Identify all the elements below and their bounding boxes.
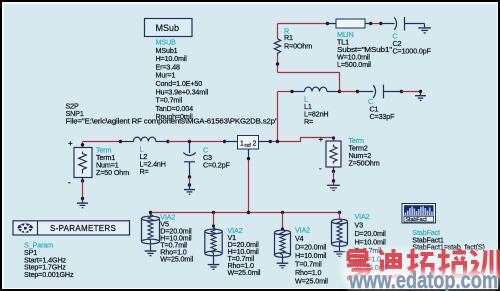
resistor R1: [274, 24, 312, 73]
port Term2: [319, 135, 380, 173]
wire: L2 to ref2 box: [168, 141, 225, 143]
svg-text:File="E:\eric\agilent RF compo: File="E:\eric\agilent RF components\MGA-…: [66, 117, 279, 126]
ground (top right, after C2): [418, 24, 431, 33]
svg-text:W=25.0mil: W=25.0mil: [295, 277, 328, 286]
wire: R1 branch to L1 node: [278, 73, 340, 92]
watermark CJK char 4 (pei): [438, 249, 466, 277]
node dot Term1 top pin: [81, 143, 84, 146]
inductor L2: [120, 137, 167, 176]
node dot L2 pin2: [166, 140, 169, 143]
node dot L1 pin2 / R1 branch junction: [338, 90, 341, 93]
svg-text:-: -: [319, 164, 322, 173]
node dot C3 top junction: [188, 140, 191, 143]
S-PARAMETERS controller box: [13, 221, 130, 235]
svg-text:1: 1: [240, 141, 244, 148]
inductor L1: [292, 87, 340, 126]
node dot Term1 ground connection: [81, 197, 84, 200]
svg-text:S-PARAMETERS: S-PARAMETERS: [50, 224, 116, 233]
svg-text:Step=0.001GHz: Step=0.001GHz: [24, 270, 74, 279]
svg-text:+: +: [68, 139, 73, 148]
watermark background glow: [341, 249, 498, 282]
capacitor C1: [358, 85, 402, 121]
wire: L1 row left corner to coil: [278, 91, 293, 93]
svg-text:C=33pF: C=33pF: [370, 112, 396, 121]
wire: C1 to ground: [402, 91, 421, 93]
svg-text:R=: R=: [140, 167, 149, 176]
node dot C1 left lead: [356, 90, 359, 93]
S_Param text block: [24, 240, 74, 279]
svg-text:W=25.0mil: W=25.0mil: [228, 268, 261, 277]
wire: ref2 pin1 lead: [225, 141, 238, 143]
microstrip line TL1 (MLIN): [327, 19, 393, 69]
capacitor C2: [381, 17, 432, 56]
MSub parameter text: [156, 38, 209, 122]
ground (right of C1): [415, 92, 426, 101]
wire: L1 to C1: [340, 91, 358, 93]
via V3: [332, 212, 388, 272]
svg-text:+: +: [319, 135, 324, 144]
node dot L1 pin1: [290, 90, 293, 93]
node dot rail at V5: [149, 211, 152, 214]
svg-text:2: 2: [253, 141, 257, 148]
port Term1: [68, 139, 129, 187]
svg-text:C=1000.0pF: C=1000.0pF: [393, 47, 432, 56]
via V1: [205, 213, 261, 278]
svg-text:W=25.0mil: W=25.0mil: [160, 255, 193, 264]
watermark CJK char 2 (di): [377, 249, 401, 277]
node dot L2 pin1: [119, 140, 122, 143]
svg-text:C=0.2pF: C=0.2pF: [203, 161, 230, 170]
svg-text:ref: ref: [245, 143, 252, 149]
wire: top rail MLIN pin2 to C2: [371, 23, 381, 25]
wire: bottom ground rail: [151, 212, 340, 214]
ground (below Term1): [77, 199, 88, 208]
node dot C3 ground connection: [188, 183, 191, 186]
ground (below Term2): [327, 181, 340, 190]
wire: C3 to ground: [189, 177, 191, 185]
wire: Term1 to L2: [83, 141, 121, 143]
via V4: [275, 213, 329, 286]
node dot rail at V4: [281, 211, 284, 214]
node dot Term2 ground connection: [332, 179, 335, 182]
node dot C3 bottom pin: [188, 175, 191, 178]
node dot MLIN pin1: [326, 22, 329, 25]
watermark www band: [348, 272, 498, 289]
svg-text:MSub: MSub: [156, 23, 180, 33]
node dot Term1 bottom pin: [81, 179, 84, 182]
node dot Term2 bottom pin: [332, 170, 335, 173]
wire: Term2 to ground: [333, 171, 335, 181]
node dot R1 bottom pin: [276, 62, 279, 65]
wire: ref2 pin2 to Term2: [270, 138, 333, 142]
2-port S2P box U1 (1 ref 2): [238, 136, 259, 150]
watermark CJK char 5 (xun): [470, 250, 499, 279]
node dot ref2 pin2 lead: [269, 140, 272, 143]
svg-text:R=0Ohm: R=0Ohm: [284, 42, 312, 51]
svg-text:Z=50Ohm: Z=50Ohm: [349, 159, 380, 168]
node dot MLIN pin2: [369, 22, 372, 25]
StabFact text block: [412, 228, 484, 252]
node dot ref2 pin1 lead: [223, 140, 226, 143]
svg-text:L=500.0mil: L=500.0mil: [337, 60, 371, 69]
wire: ref2 pin2 to Term2: [259, 141, 271, 143]
node dot rail at V3: [338, 211, 341, 214]
ground (below C3): [184, 185, 195, 194]
svg-text:-: -: [68, 178, 71, 187]
svg-text:R=: R=: [304, 117, 313, 126]
svg-text:StabFact: StabFact: [406, 217, 428, 223]
watermark CJK char 3 (tuo): [407, 249, 434, 277]
node dot C1 right lead: [400, 90, 403, 93]
wire: top rail left segment (R1 top to MLIN pin 1): [278, 23, 328, 25]
MSub box: [145, 19, 193, 37]
node dot C2 left lead: [379, 22, 382, 25]
wire: vertical node L1-row to main row: [277, 92, 279, 142]
svg-text:Z=50 Ohm: Z=50 Ohm: [96, 168, 129, 177]
watermark CJK char 1 (yi): [347, 251, 370, 279]
wire: ref2 ref pin down to ground rail: [248, 149, 250, 159]
node dot rail at ref2 wire: [247, 211, 250, 214]
via V5: [142, 212, 194, 263]
node dot ground connection: [419, 90, 422, 93]
svg-text:www.edatop.com: www.edatop.com: [348, 267, 498, 291]
node dot junction with L1-row vertical: [276, 140, 279, 143]
S2P SNP1 file label: [66, 102, 279, 126]
node dot rail at V1: [212, 211, 215, 214]
wire: Term1 bottom to ground: [82, 181, 84, 199]
node dot ref2 ref pin: [247, 157, 250, 160]
StabFact measurement icon: [402, 204, 436, 224]
capacitor C3: [183, 142, 230, 178]
S-PARAMETERS emblem icon: [17, 223, 33, 235]
